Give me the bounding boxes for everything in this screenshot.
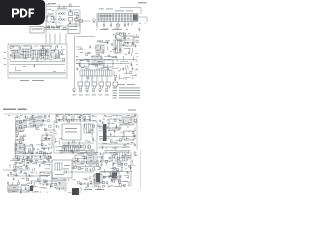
IC U23 xyxy=(62,146,79,152)
capacitor C80 xyxy=(72,151,74,154)
text label xyxy=(73,160,75,163)
text label xyxy=(8,114,10,117)
wire xyxy=(50,58,53,60)
wire xyxy=(119,161,121,166)
capacitor C4 xyxy=(127,23,129,26)
resistor R65 xyxy=(99,126,101,128)
resistor R70 xyxy=(124,144,126,146)
resistor R17 xyxy=(136,36,138,38)
text label xyxy=(79,94,83,97)
wire xyxy=(31,152,33,155)
wire xyxy=(32,145,34,148)
wire xyxy=(120,131,123,133)
resistor R93 xyxy=(124,163,127,165)
wire xyxy=(115,124,117,129)
wire xyxy=(99,130,102,132)
wire xyxy=(131,22,133,27)
capacitor C97 xyxy=(16,135,18,138)
wire xyxy=(125,136,127,140)
capacitor C33 xyxy=(132,67,134,70)
text label xyxy=(82,155,85,158)
wire xyxy=(95,46,97,49)
capacitor C90 xyxy=(89,168,91,171)
wire xyxy=(98,124,100,127)
text label xyxy=(30,54,32,57)
wire xyxy=(63,187,65,190)
resistor R25 xyxy=(115,75,117,77)
capacitor C30 xyxy=(76,68,78,71)
text label xyxy=(13,169,15,172)
resistor R63 xyxy=(114,119,116,121)
capacitor C19 xyxy=(111,43,113,46)
text label xyxy=(69,149,72,152)
resistor R53 xyxy=(48,157,51,159)
text label xyxy=(29,162,31,165)
wire xyxy=(104,150,131,152)
text label xyxy=(65,189,67,192)
text label xyxy=(20,162,23,165)
resistor R115 xyxy=(119,184,121,186)
text label xyxy=(4,51,6,54)
text label xyxy=(21,177,24,180)
wire xyxy=(9,72,66,74)
capacitor C10 xyxy=(10,54,12,57)
capacitor C3 xyxy=(48,25,50,28)
resistor R90 xyxy=(105,160,107,162)
resistor R74 xyxy=(14,169,16,171)
wire xyxy=(128,176,130,178)
wire xyxy=(14,55,16,60)
wire xyxy=(115,139,122,141)
resistor R112 xyxy=(112,180,115,182)
wire xyxy=(127,68,129,70)
wire xyxy=(123,180,126,182)
resistor R46 xyxy=(29,149,31,151)
capacitor C56 xyxy=(56,125,58,128)
resistor R85 xyxy=(112,156,114,158)
wire xyxy=(89,148,94,150)
filter FL1 xyxy=(47,16,54,22)
wire xyxy=(79,142,81,145)
wire xyxy=(52,3,55,5)
text label xyxy=(65,127,77,130)
wire xyxy=(27,160,34,162)
wire xyxy=(81,76,83,82)
junction xyxy=(91,185,94,188)
wire xyxy=(96,23,98,28)
resistor R4 xyxy=(10,46,12,48)
capacitor C54 xyxy=(84,119,86,122)
wire xyxy=(43,139,48,141)
wire xyxy=(125,155,128,157)
text label xyxy=(80,114,82,117)
text label xyxy=(23,65,26,68)
wire xyxy=(97,41,104,43)
capacitor C91 xyxy=(99,167,101,170)
text label xyxy=(68,114,70,117)
wire xyxy=(75,166,100,168)
text label xyxy=(114,175,117,178)
capacitor C76 xyxy=(10,172,12,175)
wire xyxy=(53,186,56,188)
wire xyxy=(64,70,65,72)
text label xyxy=(55,146,58,149)
resistor R49 xyxy=(40,151,42,154)
text label xyxy=(99,135,102,138)
junction xyxy=(134,73,137,76)
capacitor C2 xyxy=(46,25,48,28)
wire xyxy=(10,160,16,162)
wire xyxy=(135,60,138,62)
wire xyxy=(110,184,113,186)
text label xyxy=(138,2,147,3)
wire xyxy=(89,164,93,166)
IC U2 xyxy=(65,115,72,120)
resistor R29 xyxy=(78,145,81,148)
capacitor C39 xyxy=(23,119,25,122)
text label xyxy=(24,45,32,48)
capacitor C23 xyxy=(119,48,121,51)
text label xyxy=(97,40,103,43)
wire xyxy=(98,61,100,64)
text label xyxy=(92,163,94,166)
wire xyxy=(23,173,25,174)
wire xyxy=(57,22,61,24)
capacitor C113 xyxy=(111,179,113,182)
wire xyxy=(31,185,38,187)
text label xyxy=(116,67,119,70)
wire xyxy=(81,168,84,170)
capacitor C75 xyxy=(39,164,41,167)
capacitor C34 xyxy=(114,78,116,81)
resistor R81 xyxy=(51,185,53,187)
text label xyxy=(35,159,38,162)
capacitor C94 xyxy=(15,173,17,176)
text label xyxy=(120,123,123,126)
text label xyxy=(93,59,95,62)
wire xyxy=(43,152,48,154)
capacitor C98 xyxy=(7,182,9,185)
wire xyxy=(124,48,131,50)
text label xyxy=(92,94,96,97)
text note xyxy=(113,87,118,90)
IC U1 xyxy=(97,14,138,22)
wire xyxy=(40,156,42,158)
text label xyxy=(20,79,29,82)
wire xyxy=(15,69,21,71)
capacitor C69 xyxy=(134,143,136,146)
wire xyxy=(146,17,148,22)
capacitor C89 xyxy=(73,166,75,169)
wire xyxy=(80,183,100,185)
wire xyxy=(97,18,138,20)
wire xyxy=(10,49,17,51)
wire xyxy=(18,116,20,119)
text heading xyxy=(18,109,27,110)
text label xyxy=(16,123,18,126)
resistor R84 xyxy=(109,157,111,159)
wire xyxy=(88,115,91,117)
wire xyxy=(10,175,48,177)
wire xyxy=(128,182,130,186)
resistor R9 xyxy=(78,82,83,89)
junction xyxy=(126,114,129,117)
capacitor C2 xyxy=(69,21,71,24)
capacitor C35 xyxy=(87,76,89,79)
capacitor C81 xyxy=(86,151,88,154)
text label xyxy=(15,174,18,177)
wire xyxy=(111,142,117,144)
wire xyxy=(136,33,137,35)
connector CN3 xyxy=(72,188,79,195)
wire xyxy=(107,122,114,124)
resistor R66 xyxy=(132,132,134,134)
wire xyxy=(15,140,24,142)
wire xyxy=(59,140,61,144)
wire xyxy=(21,50,26,52)
junction xyxy=(71,144,74,147)
resistor R15 xyxy=(119,33,121,35)
IC U5 xyxy=(51,50,59,58)
wire xyxy=(126,138,129,140)
wire xyxy=(107,127,123,129)
wire xyxy=(135,69,138,71)
resistor R98 xyxy=(114,167,116,169)
capacitor C82 xyxy=(100,152,102,155)
wire xyxy=(76,145,78,148)
text label xyxy=(16,120,18,123)
text label xyxy=(121,35,124,38)
capacitor C40 xyxy=(42,119,44,122)
capacitor C100 xyxy=(46,183,48,186)
text note xyxy=(119,94,140,97)
capacitor C27 xyxy=(115,56,117,59)
capacitor C32 xyxy=(122,67,124,70)
junction xyxy=(25,57,28,60)
wire xyxy=(132,164,135,166)
transistor pinout K1 xyxy=(73,88,76,92)
wire xyxy=(113,186,117,188)
text label xyxy=(90,159,93,162)
text label xyxy=(134,154,137,157)
wire xyxy=(108,171,111,173)
resistor R109 xyxy=(90,181,92,183)
wire xyxy=(43,187,47,189)
coil L1 xyxy=(58,13,65,15)
text label xyxy=(85,67,88,70)
resistor R97 xyxy=(93,168,95,171)
capacitor C9 xyxy=(53,49,55,52)
text label xyxy=(85,140,88,143)
text label xyxy=(127,83,135,86)
wire xyxy=(106,64,108,66)
capacitor C31 xyxy=(107,67,109,70)
wire xyxy=(37,120,40,122)
text label xyxy=(48,2,56,5)
resistor R58 xyxy=(71,119,73,121)
IC U3 xyxy=(74,115,81,120)
capacitor C38 xyxy=(48,115,50,118)
resistor R79 xyxy=(26,167,28,169)
resistor R86 xyxy=(117,158,119,160)
resistor R61 xyxy=(80,146,82,148)
wire xyxy=(64,144,69,146)
text label xyxy=(127,142,129,145)
wire xyxy=(68,179,70,181)
wire xyxy=(100,171,132,173)
wire xyxy=(103,115,108,117)
resistor R59 xyxy=(92,125,94,127)
wire xyxy=(23,165,29,167)
capacitor C26 xyxy=(89,46,91,49)
text label xyxy=(124,139,127,142)
text label xyxy=(28,150,30,153)
text label xyxy=(64,164,70,167)
block frame xyxy=(8,44,67,78)
wire xyxy=(46,4,50,6)
resistor R97 xyxy=(20,136,22,139)
wire xyxy=(30,156,32,159)
wire xyxy=(16,127,18,131)
wire xyxy=(99,171,105,173)
wire xyxy=(100,57,102,60)
wire xyxy=(17,50,19,53)
resistor R118 xyxy=(98,187,100,189)
wire xyxy=(110,22,112,27)
wire xyxy=(49,152,52,154)
resistor R106 xyxy=(78,182,80,184)
wire xyxy=(36,172,38,174)
wire xyxy=(117,22,119,27)
capacitor C8 xyxy=(46,50,48,53)
PDF badge xyxy=(0,0,149,198)
wire xyxy=(23,172,25,175)
wire xyxy=(105,151,108,153)
wire xyxy=(58,54,60,59)
wire xyxy=(44,164,50,166)
wire xyxy=(123,131,125,135)
text label xyxy=(115,142,118,145)
IC U35 xyxy=(94,174,102,183)
wire xyxy=(31,156,33,158)
IC U7 xyxy=(125,36,134,46)
resistor R110 xyxy=(103,181,105,183)
resistor R24 xyxy=(130,71,132,73)
wire xyxy=(96,76,98,82)
wire xyxy=(92,116,97,118)
resistor R89 xyxy=(77,160,79,162)
junction xyxy=(120,62,123,65)
IC U31 xyxy=(8,185,18,192)
wire xyxy=(80,48,83,50)
wire xyxy=(91,151,93,152)
resistor R20 xyxy=(85,53,87,55)
wire xyxy=(97,15,138,17)
text label xyxy=(45,132,48,135)
resistor R30 xyxy=(83,145,86,148)
resistor R104 xyxy=(18,182,20,184)
wire xyxy=(36,144,40,146)
node C xyxy=(112,173,117,179)
wire xyxy=(40,151,47,153)
capacitor C22 xyxy=(114,48,116,51)
IC U18 main xyxy=(62,124,81,140)
resistor R78 xyxy=(16,166,18,168)
wire xyxy=(88,155,92,157)
capacitor C111 xyxy=(108,175,110,178)
capacitor C1 xyxy=(70,9,72,12)
wire xyxy=(54,57,57,59)
resistor R32 xyxy=(16,116,18,118)
wire xyxy=(132,36,136,38)
capacitor C93 xyxy=(7,174,9,177)
text label xyxy=(42,174,50,177)
capacitor C3 xyxy=(51,25,53,28)
text label xyxy=(126,10,133,13)
text label xyxy=(108,143,111,146)
text label xyxy=(131,141,134,144)
junction xyxy=(126,60,129,63)
wire xyxy=(89,130,91,133)
IC U8b xyxy=(96,45,104,53)
wire xyxy=(109,172,111,176)
wire xyxy=(34,191,38,193)
text label xyxy=(76,55,78,58)
wire xyxy=(132,160,134,164)
wire xyxy=(134,127,136,130)
wire xyxy=(110,50,113,52)
wire xyxy=(118,127,120,130)
wire xyxy=(75,158,87,160)
text label xyxy=(116,115,118,118)
resistor R5 xyxy=(19,47,21,49)
text label xyxy=(128,110,136,111)
IC U17 xyxy=(25,146,33,153)
transistor Q1 xyxy=(93,19,96,23)
resistor R33 xyxy=(44,116,46,118)
IC U14 xyxy=(26,119,34,127)
label box xyxy=(30,27,44,34)
IC U4 xyxy=(40,49,49,59)
wire xyxy=(101,41,108,43)
resistor R8 xyxy=(63,58,65,60)
capacitor C63 xyxy=(99,119,101,122)
resistor R69 xyxy=(119,139,121,141)
capacitor C60 xyxy=(64,148,66,151)
capacitor C18 xyxy=(132,41,134,44)
wire xyxy=(80,149,86,151)
capacitor C109 xyxy=(87,185,89,188)
wire xyxy=(49,34,51,45)
wire xyxy=(119,157,131,159)
resistor R41 xyxy=(17,132,19,135)
text label xyxy=(115,51,118,54)
wire xyxy=(118,75,120,80)
capacitor C25 xyxy=(107,42,109,45)
capacitor C102 xyxy=(20,191,22,194)
wire xyxy=(29,122,32,124)
wire xyxy=(21,183,28,185)
junction xyxy=(126,45,129,48)
resistor R12 xyxy=(99,82,104,89)
wire xyxy=(111,115,116,117)
wire xyxy=(106,76,108,82)
text label xyxy=(84,188,92,191)
resistor R51 xyxy=(16,156,18,159)
resistor R13 xyxy=(106,82,111,89)
wire xyxy=(45,3,47,30)
wire xyxy=(135,130,137,132)
